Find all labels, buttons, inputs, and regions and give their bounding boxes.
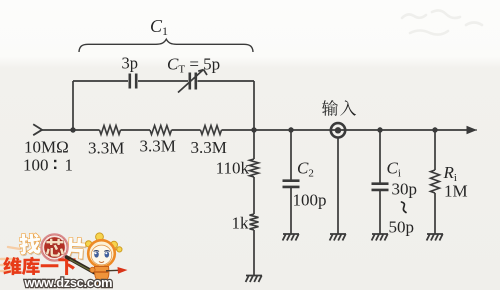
logo zhao char (find) <box>20 234 42 256</box>
svg-text:3.3M: 3.3M <box>191 138 227 157</box>
logo speed streaks <box>1 247 20 271</box>
ground under terminal <box>330 234 346 241</box>
capacitor Ci plates <box>372 184 389 190</box>
wire Ci branch bottom <box>379 190 381 234</box>
wire C2 branch bottom <box>290 187 292 234</box>
junction dot Ci branch <box>377 127 382 132</box>
trimmer capacitor CT plates <box>190 73 196 90</box>
wire C2 branch top <box>290 130 292 180</box>
mascot belt <box>95 271 108 273</box>
svg-text:3p: 3p <box>122 54 139 73</box>
capacitor 3p plates <box>130 74 136 89</box>
mascot face <box>91 245 112 265</box>
svg-text:CT = 5p: CT = 5p <box>167 55 220 76</box>
label tilde range <box>402 202 407 213</box>
mascot body <box>94 267 108 281</box>
mascot legs <box>95 279 109 287</box>
svg-text:10MΩ: 10MΩ <box>24 138 69 157</box>
input chevron arrow <box>33 124 42 135</box>
ground under Ci <box>372 234 388 241</box>
wire right vertical riser <box>253 81 255 130</box>
wire between R2 R3 <box>172 129 201 131</box>
brace C1 <box>79 39 253 52</box>
wire top line seg3 <box>198 80 255 82</box>
mascot eyes <box>94 251 110 258</box>
arrowhead right end <box>467 126 478 134</box>
capacitor C2 plates <box>283 181 300 187</box>
resistor R 3.3M (first) <box>100 126 121 135</box>
logo pian char <box>66 239 87 261</box>
terminal outer circle <box>331 123 345 137</box>
wire Ri branch top <box>434 130 436 170</box>
wire Ci branch top <box>379 130 381 183</box>
trimmer arrow diagonal <box>178 70 207 93</box>
wire top line seg2 <box>138 80 188 82</box>
svg-text:www.dzsc.com: www.dzsc.com <box>24 275 113 290</box>
wire left vertical riser <box>72 81 74 130</box>
svg-text:30p: 30p <box>392 180 418 199</box>
resistor 1k <box>250 214 259 230</box>
junction dot left riser <box>70 127 75 132</box>
mascot head ring <box>88 240 115 267</box>
wire R3 to right with junctions <box>222 129 470 131</box>
svg-text:50p: 50p <box>389 218 415 237</box>
logo xin char (chip) in magnifier <box>45 238 64 256</box>
svg-text:1M: 1M <box>444 182 468 201</box>
mascot dark pen arm <box>67 257 97 274</box>
svg-text:1k: 1k <box>232 214 250 233</box>
junction dot Ri branch <box>432 127 437 132</box>
resistor 110k <box>250 159 259 177</box>
mascot right arm with red dart <box>106 269 119 272</box>
wire top line seg1 <box>73 80 128 82</box>
wire 110k to 1k <box>253 177 255 214</box>
resistor Ri zigzag <box>431 170 440 193</box>
wire main line left segment <box>42 129 100 131</box>
wire 1k to ground <box>253 230 255 276</box>
wire terminal stem <box>337 138 339 234</box>
logo weiku yixia red text <box>3 257 75 275</box>
svg-text:3.3M: 3.3M <box>88 139 124 158</box>
junction dot 110k branch <box>251 127 256 132</box>
wire arrow tail tip <box>469 129 477 131</box>
junction dot C2 branch <box>288 127 293 132</box>
mascot antenna balls <box>86 233 123 252</box>
wire Ri branch bottom <box>434 193 436 234</box>
ground under 1k <box>246 276 262 283</box>
resistor 3.3M (third) <box>201 126 222 135</box>
ground under C2 <box>283 234 299 241</box>
wire 254 down to 110k <box>253 130 255 159</box>
logo magnifier circle <box>41 234 68 261</box>
wire between R1 R2 <box>121 129 151 131</box>
mascot mouth <box>99 262 104 263</box>
svg-text:100: 100 <box>23 156 49 175</box>
svg-text:1: 1 <box>65 156 74 175</box>
mascot antenna stems <box>89 236 119 250</box>
terminal inner dot <box>335 127 341 133</box>
label shuru (input) <box>322 100 356 116</box>
faint bleed-through marks <box>402 10 482 34</box>
resistor 3.3M (second) <box>150 126 172 135</box>
svg-text:100p: 100p <box>293 191 327 210</box>
ground under Ri <box>427 234 443 241</box>
svg-text:110k: 110k <box>216 159 250 178</box>
svg-text:3.3M: 3.3M <box>140 137 176 156</box>
